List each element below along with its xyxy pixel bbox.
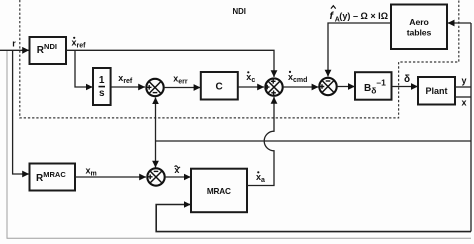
summing junction S4 [147,168,164,185]
svg-text:x: x [462,98,467,108]
svg-text:1: 1 [99,75,105,86]
svg-text:xcmd: xcmd [288,72,307,84]
integrator 1/s [93,68,111,105]
wire r input [0,49,29,51]
wire x_err [164,87,201,89]
svg-text:xm: xm [86,166,97,178]
svg-text:xc: xc [246,72,255,84]
summing junction S2 [265,78,283,95]
wire f_A feed from Aero tables into S3 [328,23,391,77]
block C [201,72,238,100]
wire x_ref [111,86,145,88]
svg-text:f: f [330,10,335,22]
block B_delta^-1 [355,72,392,100]
wire r branch to RMRAC [13,50,29,174]
wire right feedback bus [470,23,472,232]
label xdot_a [256,171,265,184]
scan artifact border line [7,51,471,238]
svg-text:xref: xref [72,38,87,50]
block RNDI [30,37,67,64]
svg-text:Aero: Aero [409,17,428,27]
wire x_m [75,176,146,178]
block RMRAC [30,164,76,191]
label xtilde [174,165,180,175]
wire xtilde [165,176,191,178]
wire xdot_c [238,86,264,88]
wire xdot_ref rail to S2 [66,50,274,77]
wire S3 to B [337,86,355,88]
svg-text:tables: tables [407,27,432,37]
wire x feedback mid rail [156,140,472,142]
block Plant [418,77,455,105]
svg-text:xerr: xerr [173,74,188,86]
svg-text:δ: δ [404,74,410,85]
svg-text:x: x [174,165,179,175]
NDI boundary (dashed) [20,0,459,118]
svg-text:y: y [462,76,467,86]
svg-text:Plant: Plant [426,86,448,96]
svg-text:MRAC: MRAC [207,187,231,196]
wire y feedback into Aero tables [448,22,471,24]
wire y output [455,86,471,88]
svg-text:NDI: NDI [233,7,246,16]
block MRAC [191,169,247,213]
wire delta [392,86,418,88]
svg-text:xa: xa [256,172,265,184]
label xdot_cmd [288,71,307,84]
svg-text:xref: xref [118,73,133,85]
svg-text:r: r [12,38,16,48]
block Aero tables [391,5,447,50]
wire xdot_a with crossover hop into S2 [247,97,274,186]
summing junction S3 [319,78,336,95]
wire bottom feedback to MRAC [156,205,471,232]
label f_A(y) - Omega x I-Omega [330,6,389,24]
wire xdot_cmd [283,86,319,88]
label xdot_c [246,71,255,84]
wire branch to integrator [75,50,93,87]
wire x feedback down into S4 [155,141,157,168]
svg-text:C: C [216,82,223,93]
wire x feedback into S1 (vertical up) [155,97,157,141]
summing junction S1 [146,79,163,96]
label xdot_ref [72,37,87,50]
svg-text:s: s [99,88,105,99]
wire x output [455,96,471,98]
svg-text:(y) – Ω × IΩ: (y) – Ω × IΩ [339,11,388,21]
